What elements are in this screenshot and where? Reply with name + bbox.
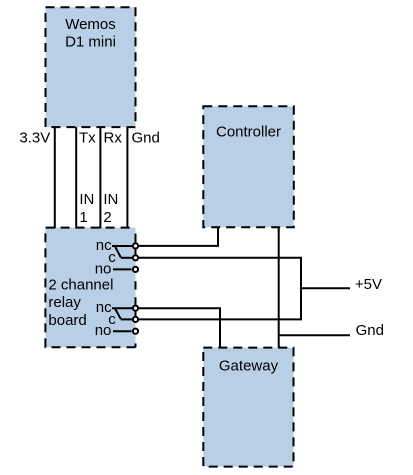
svg-text:Gateway: Gateway bbox=[219, 358, 279, 375]
terminal c (relay2) bbox=[133, 317, 138, 322]
relay 2 contacts bbox=[95, 299, 138, 339]
border dash (relay board right edge, middle) bbox=[135, 281, 137, 289]
junction link nc-c (relay1) bbox=[135, 242, 137, 258]
terminal c (relay1) bbox=[133, 255, 138, 260]
pin label IN 1 bbox=[79, 191, 94, 226]
wire Gnd stub bbox=[279, 334, 350, 336]
module U1 Wemos D1 mini bbox=[46, 7, 136, 127]
svg-text:IN: IN bbox=[79, 191, 94, 208]
svg-text:no: no bbox=[95, 260, 112, 277]
svg-text:Gnd: Gnd bbox=[132, 130, 160, 147]
module K1 2 channel relay board bbox=[45, 228, 135, 348]
terminal no (relay2) bbox=[133, 329, 138, 334]
lead no (relay1) bbox=[113, 268, 132, 270]
svg-text:D1 mini: D1 mini bbox=[65, 34, 116, 51]
terminal no (relay1) bbox=[133, 267, 138, 272]
svg-text:no: no bbox=[95, 322, 112, 339]
svg-text:relay: relay bbox=[48, 294, 81, 311]
module U3 Gateway bbox=[203, 348, 293, 467]
lead c (relay1) bbox=[121, 257, 132, 259]
border dash (relay board right edge, lower) bbox=[135, 297, 137, 305]
svg-text:1: 1 bbox=[79, 209, 87, 226]
lead nc (relay2) bbox=[112, 307, 132, 309]
relay 1 contacts bbox=[95, 237, 138, 277]
terminal nc (relay1) bbox=[133, 243, 138, 248]
lead no (relay2) bbox=[113, 330, 132, 332]
svg-text:2 channel: 2 channel bbox=[48, 276, 113, 293]
border dash (relay board right edge, upper) bbox=[135, 234, 137, 242]
switch arm (relay1) bbox=[115, 246, 121, 257]
svg-text:Wemos: Wemos bbox=[65, 16, 116, 33]
wire 3.3V net bbox=[54, 127, 56, 228]
wire relay1 nc to Controller bbox=[139, 228, 218, 246]
wire Gnd vertical Controller to Gateway bbox=[278, 228, 280, 348]
svg-text:+5V: +5V bbox=[355, 276, 382, 293]
svg-text:2: 2 bbox=[103, 209, 111, 226]
svg-text:Rx: Rx bbox=[104, 130, 123, 147]
svg-text:Tx: Tx bbox=[79, 130, 96, 147]
svg-text:Controller: Controller bbox=[216, 124, 281, 141]
pin label IN 2 bbox=[103, 191, 118, 226]
lead c (relay2) bbox=[121, 318, 132, 320]
wire relay2 nc to Gateway bbox=[139, 308, 220, 347]
junction link nc-c (relay2) bbox=[135, 305, 137, 319]
wire Rx to IN2 bbox=[99, 127, 101, 228]
border dash (relay board bottom-right corner) bbox=[135, 344, 137, 348]
svg-text:board: board bbox=[48, 312, 86, 329]
lead nc (relay1) bbox=[112, 245, 132, 247]
wire Tx to IN1 bbox=[75, 127, 77, 228]
switch arm (relay2) bbox=[115, 308, 121, 319]
terminal nc (relay2) bbox=[133, 306, 138, 311]
svg-text:Gnd: Gnd bbox=[356, 322, 384, 339]
module U2 Controller bbox=[203, 106, 293, 227]
svg-text:3.3V: 3.3V bbox=[19, 130, 50, 147]
wire Gnd net bbox=[126, 127, 128, 228]
svg-text:IN: IN bbox=[103, 191, 118, 208]
wire +5V stub bbox=[301, 287, 350, 289]
wire +5V bus (relay1 c / relay2 c) bbox=[139, 258, 301, 320]
